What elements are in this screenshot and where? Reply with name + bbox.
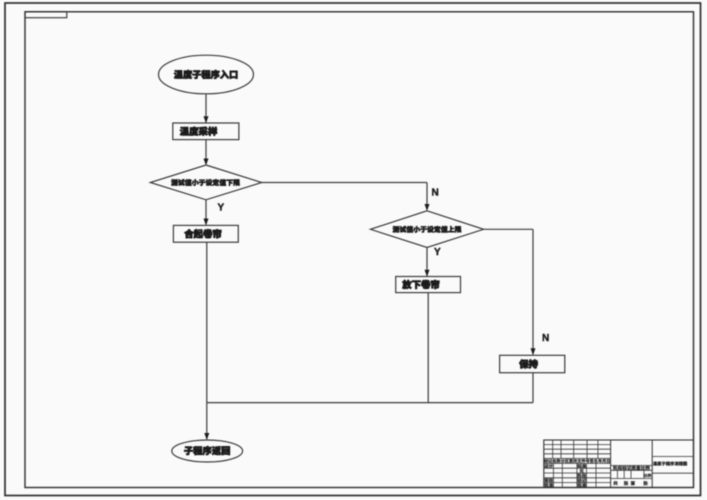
arrowhead into rect4 xyxy=(531,348,536,355)
terminator ellipse: 子程序返回 xyxy=(172,440,243,462)
wire diamond1 N branch horizontal xyxy=(262,182,427,184)
svg-text:Y: Y xyxy=(218,203,225,214)
wire ellipse->rect1 xyxy=(205,94,207,123)
process rect: 放下卷帘 xyxy=(396,277,461,293)
process rect: 合起卷帘 xyxy=(173,225,238,242)
title block xyxy=(544,440,694,488)
wire horizontal bus xyxy=(207,402,533,404)
process rect: 保持 xyxy=(500,355,565,372)
wire rect2->return ellipse xyxy=(206,242,208,439)
svg-text:Y: Y xyxy=(434,247,441,258)
arrowhead into return ellipse xyxy=(204,433,209,440)
decision diamond: 测试值小于设定值上限 xyxy=(371,211,484,248)
svg-text:N: N xyxy=(542,333,549,344)
arrowhead into diamond1 xyxy=(204,159,209,166)
wire diamond2 N branch horizontal xyxy=(484,228,533,230)
decision diamond: 测试值小于设定值下限 xyxy=(150,165,261,200)
arrowhead into diamond2 xyxy=(425,204,430,211)
wire diamond2->rect3 xyxy=(426,248,428,276)
frame corner tab xyxy=(25,12,67,18)
arrowhead into rect3 xyxy=(425,270,430,277)
svg-text:N: N xyxy=(432,188,439,199)
wire diamond2 N branch down xyxy=(532,229,534,354)
wire rect3 down to bus xyxy=(427,293,429,403)
arrowhead into rect2 xyxy=(204,219,209,226)
wire rect4 down xyxy=(532,373,534,403)
wire rect1->diamond1 xyxy=(205,140,207,164)
terminator ellipse: 温度子程序入口 xyxy=(159,55,254,94)
process rect: 温度采样 xyxy=(173,123,239,140)
wire N branch down to diamond2 xyxy=(426,183,428,210)
arrowhead into rect1 xyxy=(204,116,209,123)
wire diamond1->rect2 xyxy=(205,200,207,225)
